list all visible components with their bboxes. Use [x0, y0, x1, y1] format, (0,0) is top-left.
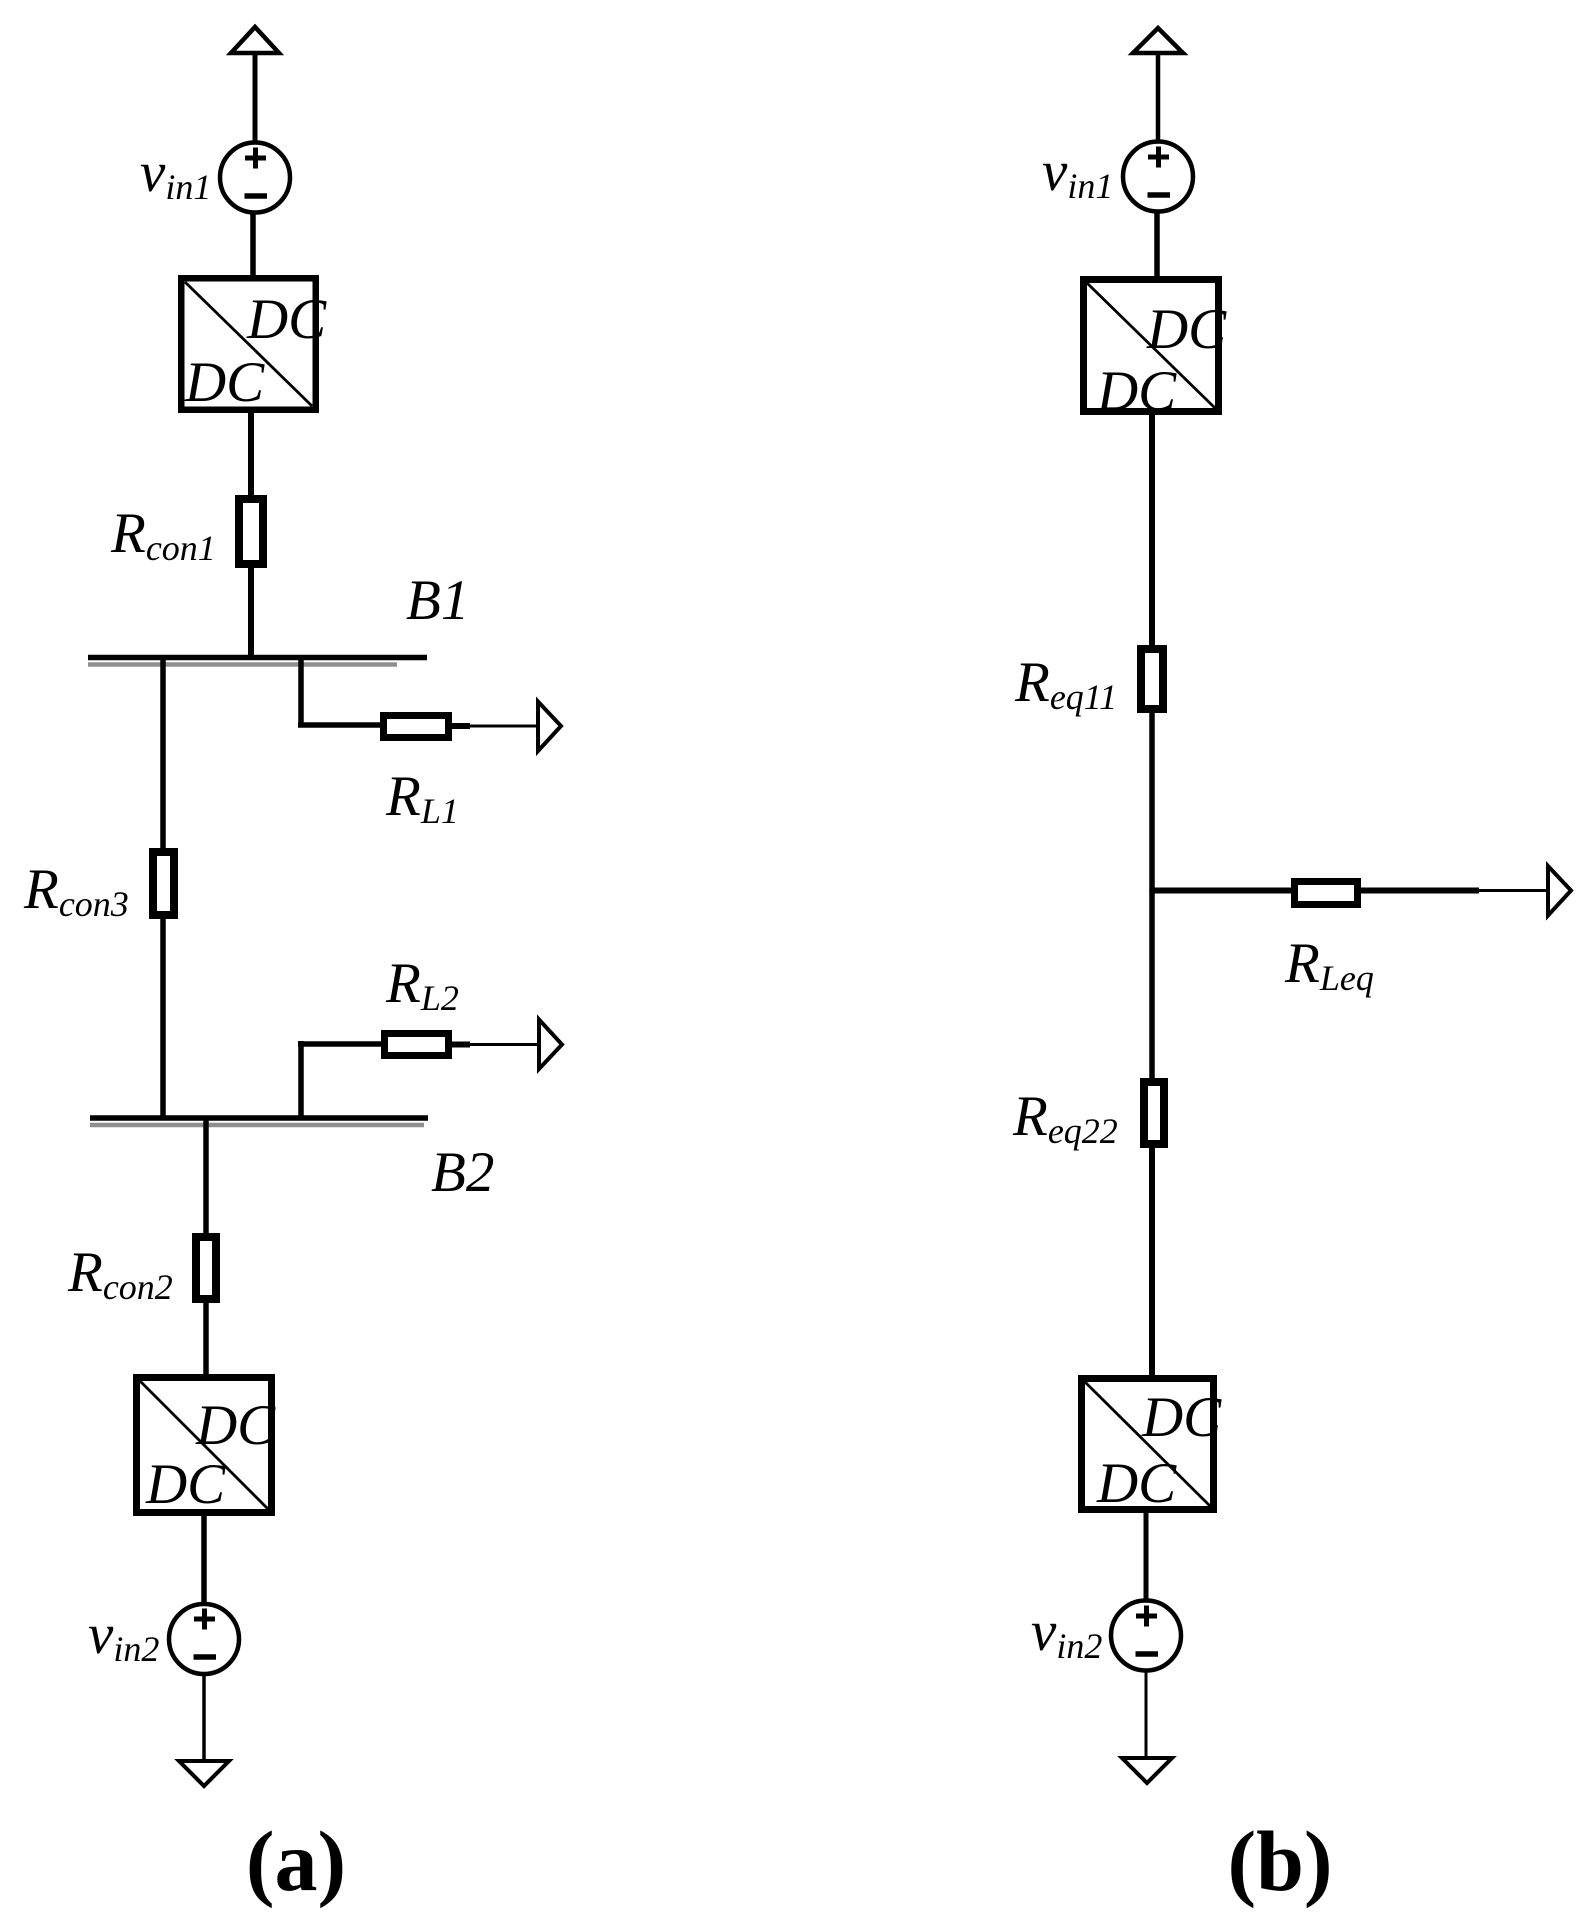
wire v_in1 to converter U3 [1154, 210, 1160, 280]
svg-text:DC: DC [184, 351, 265, 414]
ground arrow (a) [179, 1761, 229, 1786]
wire bus B1 to load 1 (vertical) [298, 658, 304, 728]
voltage source v_in2 (b) (circle) [1111, 1601, 1181, 1671]
wire R_L2 to arrow [452, 1042, 540, 1048]
DC/DC converter U3 (box) [1084, 280, 1228, 424]
resistor R_L1 [384, 716, 449, 738]
v_in2 plus sign [194, 1609, 215, 1630]
wire R_Leq to arrow [1361, 888, 1549, 894]
wire node to R_eq22 [1149, 890, 1155, 1082]
resistor R_con2 [196, 1237, 216, 1299]
wire bus B1 to R_con3 [160, 658, 166, 852]
svg-text:(b): (b) [1227, 1813, 1332, 1909]
v_in1 (b) minus sign [1148, 192, 1171, 198]
svg-text:B1: B1 [406, 569, 469, 632]
svg-text:DC: DC [1146, 298, 1227, 361]
svg-text:DC: DC [145, 1453, 226, 1516]
wire bus B2 to R_con2 [203, 1118, 209, 1238]
wire bus B2 to load 2 (vertical) [298, 1041, 304, 1118]
resistor R_eq22 [1144, 1082, 1164, 1144]
wire arrow to v_in1 [253, 51, 258, 143]
v_in1 plus sign [245, 148, 266, 169]
output arrow load (b) [1548, 866, 1571, 916]
svg-text:(a): (a) [246, 1813, 346, 1909]
output arrow load 2 [539, 1020, 562, 1070]
bus B1 (busbar) [88, 658, 427, 665]
v_in2 (b) plus sign [1136, 1606, 1157, 1627]
svg-text:DC: DC [246, 288, 327, 351]
resistor R_Leq [1295, 882, 1358, 905]
wire v_in2 to ground [202, 1673, 206, 1761]
v_in1 (b) plus sign [1148, 147, 1169, 168]
wire U2 to v_in2 [201, 1513, 207, 1605]
wire arrow to v_in1 (b) [1156, 51, 1161, 143]
wire R_eq11 to node [1149, 711, 1155, 892]
svg-text:DC: DC [1141, 1386, 1222, 1449]
voltage source v_in1 (circle) [220, 143, 290, 213]
bus B2 (busbar) [90, 1118, 428, 1125]
DC/DC converter U4 (box) [1082, 1379, 1223, 1516]
ground arrow (b) [1122, 1758, 1172, 1783]
output arrow top (net out1b) [1133, 28, 1183, 53]
v_in2 minus sign [194, 1654, 217, 1660]
svg-text:DC: DC [195, 1394, 276, 1457]
wire R_con3 to bus B2 [160, 915, 166, 1118]
wire to R_L2 (horizontal) [298, 1041, 384, 1047]
svg-text:DC: DC [1096, 360, 1177, 423]
resistor R_con3 [153, 852, 174, 915]
DC/DC converter U1 (box) [181, 278, 327, 414]
wire U4 to v_in2 (b) [1144, 1509, 1149, 1602]
wire R_eq22 to converter U4 [1149, 1144, 1155, 1379]
node wire to R_Leq (horizontal) [1150, 888, 1295, 894]
svg-text:DC: DC [1096, 1452, 1177, 1515]
DC/DC converter U2 (box) [137, 1378, 277, 1517]
wire R_L1 to arrow [452, 723, 539, 729]
wire to R_L1 (horizontal) [298, 722, 383, 728]
output arrow top (net out1a) [231, 27, 279, 53]
resistor R_eq11 [1141, 649, 1163, 709]
resistor R_L2 [385, 1034, 449, 1056]
wire U3 to R_eq11 [1149, 412, 1155, 650]
voltage source v_in1 (b) (circle) [1123, 142, 1193, 212]
wire R_con2 to converter U2 [203, 1299, 209, 1378]
resistor R_con1 [239, 499, 263, 564]
svg-text:B2: B2 [431, 1141, 494, 1204]
wire v_in1 to converter U1 [250, 211, 256, 279]
wire U1 to R_con1 [248, 410, 254, 500]
v_in1 minus sign [245, 193, 268, 199]
v_in2 (b) minus sign [1136, 1651, 1159, 1657]
voltage source v_in2 (circle) [169, 1604, 239, 1674]
output arrow load 1 [538, 702, 561, 752]
wire v_in2 to ground (b) [1145, 1670, 1148, 1758]
wire R_con1 to bus B1 [248, 568, 254, 660]
